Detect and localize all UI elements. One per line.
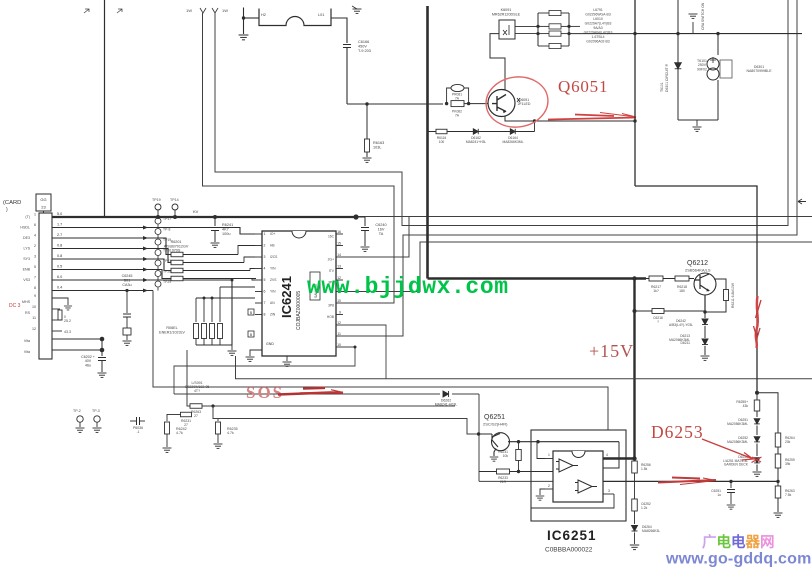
node dot x757 y393	[755, 391, 759, 395]
ground Q6251 emitter	[490, 457, 499, 461]
svg-text:1: 1	[548, 453, 550, 457]
ground below D6211	[704, 346, 706, 355]
svg-text:I2CS: I2CS	[270, 255, 278, 259]
wire pin row 6	[52, 270, 171, 279]
wire F4 y406	[187, 350, 455, 406]
svg-text:0.8: 0.8	[57, 244, 62, 248]
test point TP20	[143, 249, 171, 262]
node bus junction TP14	[173, 215, 177, 219]
wire pin row 3	[52, 238, 171, 255]
node dot on row	[231, 279, 234, 282]
test point TP28	[143, 270, 171, 283]
resistor R06EL element 3	[210, 324, 215, 346]
svg-text:DE3: DE3	[23, 236, 30, 240]
IC6241 pin 10	[328, 299, 343, 308]
svg-text:NA8070999BLE: NA8070999BLE	[746, 69, 772, 73]
wire horizontals feeding array	[196, 297, 255, 299]
svg-text:1W: 1W	[222, 8, 228, 13]
svg-text:IC6251: IC6251	[547, 528, 597, 543]
wire Q6051 collector up	[504, 58, 506, 90]
opto internal amp triangles	[556, 459, 578, 472]
wire pin row 2	[52, 228, 255, 235]
svg-text:4: 4	[264, 267, 266, 271]
svg-text:SOS: SOS	[246, 383, 284, 402]
component PK082 lower branch box	[451, 101, 464, 107]
wire pin row 5	[52, 259, 171, 271]
svg-text:H2: H2	[261, 13, 266, 17]
wire Q6051 emitter to x635	[505, 116, 635, 122]
svg-text:4K7: 4K7	[222, 228, 229, 232]
resistor R06EL element 1	[194, 324, 199, 346]
resistor R6252 vertical	[518, 442, 520, 449]
resistor R6235 vertical	[217, 419, 219, 422]
svg-text:4.7k: 4.7k	[176, 431, 183, 435]
ground below transformer	[696, 120, 698, 126]
node arrow stub A top	[200, 8, 206, 13]
wire C6166 down to y104 line	[346, 48, 348, 105]
IC6241 lower pin 11	[336, 332, 343, 336]
IC6241 lower pin 12	[336, 321, 343, 325]
svg-text:3: 3	[264, 255, 266, 259]
svg-text:KV: KV	[193, 209, 199, 214]
svg-text:(CARD: (CARD	[3, 200, 21, 206]
svg-text:Vita: Vita	[24, 339, 30, 343]
svg-text:7: 7	[34, 276, 36, 280]
svg-text:Q6251: Q6251	[484, 414, 505, 421]
diode pack branch 2	[538, 24, 569, 29]
IC6241 pin 8	[255, 313, 276, 317]
svg-text:IO+: IO+	[270, 232, 275, 236]
chassis ground top with CRA SWITCH ON	[692, 22, 694, 34]
svg-text:2F1LED: 2F1LED	[518, 102, 531, 106]
wire long rail y216 right section	[356, 216, 812, 218]
resistor R6163	[365, 139, 370, 152]
resistor R6263 on F4	[190, 404, 202, 409]
annotation red arrow after Q6051	[548, 115, 636, 120]
svg-text:2G+: 2G+	[328, 258, 334, 262]
svg-text:450V: 450V	[358, 44, 367, 48]
svg-text:G02296WGA-B3: G02296WGA-B3	[585, 13, 611, 17]
wire x367 down to resistor R6163	[366, 104, 368, 139]
transistor Q6251 circle	[492, 433, 510, 451]
connector pin 3 label/value	[23, 254, 62, 261]
svg-text:TP14: TP14	[170, 198, 179, 202]
relay K6091 body	[499, 20, 515, 39]
node dot row8 cap branch	[125, 289, 128, 292]
resistor R6259	[777, 447, 779, 454]
node bus junction x356 big	[353, 214, 358, 219]
svg-text:Vita: Vita	[24, 350, 30, 354]
svg-text:ZVS: ZVS	[270, 278, 277, 282]
wire diode pack to x635 rail	[569, 33, 635, 35]
wire Q6251 collector right across opto	[508, 441, 619, 443]
IC6241 pin 11	[336, 287, 343, 291]
wire R6211 down to emitter junction	[705, 301, 726, 313]
capacitor C6202 polarized	[100, 337, 105, 342]
resistor R6218	[675, 276, 689, 281]
ground below D6253	[756, 465, 758, 472]
IC6241 pin 16	[328, 230, 343, 239]
svg-text:HOB: HOB	[327, 315, 335, 319]
svg-text:4T?: 4T?	[194, 389, 200, 393]
diode D6262 on F3	[452, 393, 479, 395]
wire staircase net W_A (x215 up / y172 / x402 / y225.5 / x788 up)	[215, 0, 788, 226]
svg-text:YIN: YIN	[270, 290, 276, 294]
wire R6163 to ground	[366, 152, 368, 157]
svg-text:9A/A3: 9A/A3	[593, 26, 602, 30]
svg-text:TP21: TP21	[163, 259, 171, 263]
IC6241 pin 1	[255, 232, 275, 236]
svg-text:D6211: D6211	[681, 341, 691, 345]
pin 12 stub	[52, 330, 62, 332]
off-page arrow right edge	[798, 199, 806, 204]
svg-text:4: 4	[34, 234, 36, 238]
svg-text:10: 10	[32, 305, 36, 309]
svg-text:6: 6	[34, 223, 36, 227]
diode pack branch 1	[538, 10, 569, 15]
resistor R6211 vertical	[724, 290, 729, 301]
wire opto pin1 loop to collector line	[537, 442, 545, 459]
svg-text:HB: HB	[270, 244, 275, 248]
svg-text:MA2056K3ML: MA2056K3ML	[727, 440, 748, 444]
svg-text:13: 13	[337, 264, 341, 268]
svg-text:GARDEN DECK: GARDEN DECK	[724, 463, 749, 467]
wire opto pin3 down to box bottom	[531, 494, 614, 508]
svg-text:L01: L01	[318, 13, 324, 17]
ground at bottom of +15V tail	[634, 533, 636, 545]
IC6241 pin 14	[328, 253, 343, 262]
svg-text:TP17: TP17	[163, 217, 171, 221]
svg-text:2SC/S2(H4R): 2SC/S2(H4R)	[483, 422, 508, 427]
svg-text:5: 5	[34, 265, 36, 269]
node junction top center	[242, 16, 245, 19]
capacitor C6216 box	[652, 309, 664, 314]
svg-text:MA8266K3ML: MA8266K3ML	[503, 140, 524, 144]
wire x678 vertical	[677, 0, 679, 120]
connector pin 7 label/value	[23, 275, 62, 282]
ground below C6241	[211, 243, 220, 247]
node junction x367 y104	[365, 102, 368, 105]
IC6241 pin 13	[329, 264, 343, 273]
svg-text:1k?: 1k?	[653, 289, 659, 293]
wire Q6051 base network y103.6	[445, 102, 448, 105]
svg-text:TP29: TP29	[163, 280, 171, 284]
wire IC right pins staircases lower	[343, 325, 386, 379]
node dot base junction	[477, 432, 480, 435]
resistor R6201 element 3	[171, 268, 250, 273]
svg-text:3P8: 3P8	[328, 304, 334, 308]
capacitor C6252	[634, 473, 636, 499]
pin 9 stub with ground	[52, 298, 68, 305]
diode D6211	[704, 326, 706, 338]
svg-text:GND: GND	[266, 342, 274, 346]
svg-text:6.0: 6.0	[57, 275, 62, 279]
svg-text:11: 11	[32, 316, 36, 320]
diode D6164	[510, 129, 515, 134]
wire thick to optocoupler y458.5	[602, 457, 635, 459]
capacitor C6241 below bus	[214, 217, 216, 226]
wire between resistors	[646, 278, 649, 280]
diode D6301 on x678	[675, 63, 682, 69]
resistor R6201 element 1	[171, 252, 238, 257]
wire R6259 to y481 line	[777, 468, 779, 481]
wire riser x619 down to opto right pin	[603, 442, 619, 468]
svg-text:6: 6	[264, 290, 266, 294]
svg-text:9: 9	[34, 294, 36, 298]
transistor Q6212 circle	[694, 273, 716, 295]
wire switch-on rail y33.6 right section	[635, 33, 802, 35]
pin 10 stub resistor	[52, 308, 60, 310]
svg-text:16: 16	[337, 230, 341, 234]
wire horizontal y104 to Q6051 base network	[347, 103, 443, 105]
svg-text:ENER1/1023LV: ENER1/1023LV	[159, 330, 185, 334]
resistor R06EL element 4	[218, 324, 223, 346]
svg-text:0.8: 0.8	[57, 254, 62, 258]
svg-text:MA8241+H3L: MA8241+H3L	[466, 140, 486, 144]
connector CARD body	[39, 213, 52, 359]
svg-text:14: 14	[337, 253, 341, 257]
svg-text:3: 3	[34, 255, 36, 259]
wire F2 y382 full width	[153, 291, 608, 431]
svg-text:C0BBBA000022: C0BBBA000022	[545, 547, 593, 554]
wire thick vertical main rail x428	[426, 6, 429, 279]
svg-text:39k: 39k	[785, 462, 791, 466]
svg-text:L6010: L6010	[593, 17, 603, 21]
svg-text:C6240: C6240	[375, 223, 386, 227]
IC6241 pin 12	[328, 276, 343, 285]
wire F5 y418.5	[213, 406, 479, 434]
diode D6162	[473, 129, 478, 134]
svg-text:D6253: D6253	[651, 422, 704, 442]
test point TP19 circle	[155, 204, 161, 210]
op-amp IC6241 body	[262, 231, 336, 356]
svg-text:1: 1	[264, 232, 266, 236]
test point TP-8	[143, 228, 170, 241]
IC6241 pin 7	[255, 301, 275, 305]
wire staircase net W_D (x797 / y235 / x403 to IC pin)	[343, 0, 797, 336]
svg-text:广电电器网: 广电电器网	[702, 533, 775, 551]
connector pin 6 label/value	[20, 223, 62, 230]
small resistor R6231	[181, 412, 192, 417]
wire crossing verticals to lower resistor array	[195, 298, 197, 322]
svg-text:(T): (T)	[25, 215, 30, 219]
transformer T6101	[717, 34, 719, 55]
IC6241 pin 5	[255, 278, 277, 282]
svg-text:G0229A64(L4Y)B3: G0229A64(L4Y)B3	[584, 31, 613, 35]
capacitor C6240 at bus end	[356, 217, 365, 226]
svg-text:5.0: 5.0	[57, 212, 62, 216]
optocoupler outer box	[531, 430, 626, 521]
svg-text:1-6TBL4: 1-6TBL4	[591, 35, 604, 39]
svg-text:R6241: R6241	[222, 223, 233, 227]
wire from junction down to ground	[243, 8, 245, 35]
resistor R6201 element 2	[171, 260, 244, 265]
svg-text:G02096A02-B3: G02096A02-B3	[586, 40, 609, 44]
svg-text:23: 23	[41, 205, 46, 210]
svg-text:11: 11	[337, 332, 341, 336]
test point TP29	[143, 280, 171, 293]
wire F1 y371	[236, 356, 812, 379]
svg-text:LYS: LYS	[23, 247, 30, 251]
test point TP-3	[94, 416, 100, 422]
svg-text:TP20: TP20	[163, 249, 171, 253]
svg-text:www.bjjdwx.com: www.bjjdwx.com	[307, 274, 509, 300]
ground below junction	[239, 35, 249, 40]
svg-text:20k: 20k	[785, 440, 791, 444]
svg-text:99F02: 99F02	[697, 67, 707, 71]
svg-text:4.7k: 4.7k	[227, 431, 234, 435]
diode pack branch 4	[538, 43, 569, 48]
svg-text:1.2k: 1.2k	[641, 506, 648, 510]
svg-text:0.5: 0.5	[57, 265, 62, 269]
wire staircase R6201 to IC pins	[238, 246, 255, 255]
svg-text:15: 15	[337, 241, 341, 245]
svg-text:TP-8: TP-8	[163, 228, 170, 232]
diode pack branch 3	[538, 31, 569, 36]
test point TP17	[143, 217, 171, 230]
svg-text:MHS: MHS	[22, 300, 31, 304]
ground right of IC gnd	[286, 356, 288, 361]
connector pin 1 label/value	[25, 212, 62, 219]
wire base into Q6251	[479, 433, 492, 435]
ground below C6202	[98, 373, 107, 377]
diode D6253 component	[756, 444, 758, 457]
connector tag box GG 23	[36, 194, 51, 211]
node bus junction x215	[213, 215, 217, 219]
opto pin stubs and numbers	[545, 458, 553, 460]
svg-text:R6211 6.8k/10W: R6211 6.8k/10W	[731, 282, 735, 308]
svg-text:CA3u: CA3u	[122, 283, 131, 287]
svg-text:C6166: C6166	[358, 40, 369, 44]
svg-text:G0229A7(L4Y)B3: G0229A7(L4Y)B3	[585, 22, 612, 26]
node arrow stub B top	[212, 8, 218, 13]
svg-text:2: 2	[34, 244, 36, 248]
svg-text:R6163: R6163	[373, 141, 384, 145]
diode D6264	[634, 511, 636, 524]
svg-text:10k: 10k	[503, 454, 509, 458]
svg-text:DC 3: DC 3	[9, 303, 21, 309]
svg-text:www.go-gddq.com: www.go-gddq.com	[665, 551, 812, 568]
svg-text:10: 10	[337, 343, 341, 347]
svg-text:100u: 100u	[222, 232, 230, 236]
svg-text:9: 9	[339, 310, 341, 314]
annotation SOS red arrow	[278, 388, 343, 395]
wire pin row 8	[52, 290, 153, 292]
svg-text:L6791: L6791	[593, 8, 603, 12]
diode D6251	[756, 411, 758, 417]
wire lower loop y481 under opto	[479, 480, 603, 482]
svg-text:TP-2: TP-2	[73, 409, 81, 413]
transistor Q6051 internals	[492, 95, 506, 112]
svg-text:COJBAZ0000005: COJBAZ0000005	[296, 291, 302, 330]
svg-text:1u: 1u	[717, 493, 721, 497]
svg-text:T6101: T6101	[660, 82, 664, 92]
svg-text:100: 100	[439, 140, 445, 144]
svg-text:A/B3(L4Y)-Y03L: A/B3(L4Y)-Y03L	[669, 323, 693, 327]
svg-text:TP-3: TP-3	[92, 409, 100, 413]
diode pack rails	[537, 13, 539, 46]
svg-text:CRA SWITCH ON: CRA SWITCH ON	[701, 2, 705, 30]
resistor R6201 element 4	[171, 276, 256, 281]
svg-text:3: 3	[608, 489, 610, 493]
svg-text:1: 1	[34, 213, 36, 217]
wire branch y311 from +15V rail	[635, 310, 653, 312]
svg-text:GG: GG	[40, 197, 46, 202]
svg-text:HSDL: HSDL	[20, 226, 30, 230]
svg-text:2: 2	[264, 244, 266, 248]
svg-text:?: ?	[657, 320, 659, 324]
connector pin 2 label/value	[23, 244, 62, 251]
wire x635 to x757 staircase down	[635, 186, 757, 393]
svg-text:27: 27	[194, 414, 198, 418]
wire main bus y217	[48, 216, 356, 218]
svg-text:TP19: TP19	[152, 198, 161, 202]
svg-text:8: 8	[264, 313, 266, 317]
wire F3 corner down x479	[478, 394, 480, 481]
annotation red ellipse around Q6051	[483, 73, 551, 130]
svg-text:MA2056K3ML: MA2056K3ML	[727, 422, 748, 426]
svg-text:1.7: 1.7	[57, 223, 62, 227]
svg-text:12: 12	[337, 321, 341, 325]
svg-text:43k: 43k	[743, 404, 749, 408]
test point TP-2	[77, 416, 83, 422]
svg-text:YIN: YIN	[270, 267, 276, 271]
svg-text:2: 2	[548, 484, 550, 488]
resistor R6263b below y481	[777, 481, 779, 486]
svg-text:B01: B01	[124, 278, 131, 282]
resistor R6116	[436, 129, 447, 134]
svg-text:AN: AN	[270, 301, 275, 305]
wire staircase net W_B (x202 / y186 / x394 down)	[203, 13, 395, 303]
node junction 634 311	[633, 309, 637, 313]
svg-text:103L: 103L	[373, 145, 381, 149]
svg-text:RS: RS	[25, 311, 31, 315]
svg-text:2SB564KA/LS: 2SB564KA/LS	[685, 268, 711, 273]
svg-text:8: 8	[34, 286, 36, 290]
resistor R6264 on x778	[775, 433, 781, 447]
wire staircase net W_E (y242 long line)	[343, 242, 812, 292]
svg-text:4: 4	[606, 453, 608, 457]
svg-text:16V: 16V	[378, 228, 385, 232]
ground below array	[228, 351, 237, 355]
svg-text:TP28: TP28	[163, 270, 171, 274]
wire junction to fuse left post	[244, 17, 260, 19]
svg-text:16C: 16C	[328, 235, 335, 239]
svg-text:K6091: K6091	[501, 8, 512, 12]
test point TP21	[143, 259, 171, 272]
IC6241 inner register box	[310, 272, 320, 300]
wire relay left to collector riser	[490, 34, 505, 90]
svg-text:ITV: ITV	[329, 269, 335, 273]
svg-text:0.4: 0.4	[57, 286, 62, 290]
wire x635 vertical	[634, 0, 636, 186]
svg-text:+15V: +15V	[589, 341, 634, 361]
resistor R6256 on +15V tail	[634, 459, 636, 462]
diode D6213 below emitter	[704, 312, 706, 318]
test point TP19	[143, 238, 171, 251]
svg-text:46u: 46u	[85, 363, 91, 367]
diode D6252	[756, 426, 758, 436]
annotation red squiggle arrow on x757	[756, 296, 758, 348]
svg-text:MR62R120DSLE: MR62R120DSLE	[492, 12, 521, 16]
ground floating top right of fuse	[353, 9, 362, 13]
svg-text:C6245: C6245	[122, 274, 133, 278]
svg-text:T-9 203: T-9 203	[358, 49, 371, 53]
svg-text:SY3: SY3	[23, 257, 30, 261]
svg-text:ENB: ENB	[23, 268, 31, 272]
component PR081 oval upper branch	[447, 88, 451, 104]
annotation red strikethrough on y481	[658, 478, 716, 483]
